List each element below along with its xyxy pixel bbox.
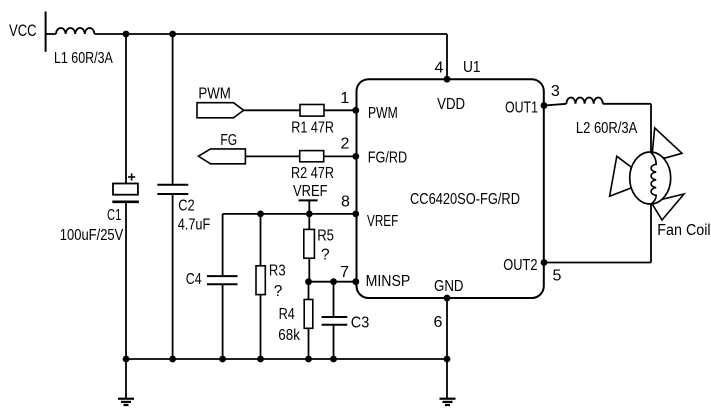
wire R4 bottom lead — [308, 328, 310, 359]
wire fan vertical bottom — [650, 204, 652, 263]
resistor R2 — [291, 151, 334, 182]
wire R4 top lead — [308, 282, 310, 300]
capacitor C1 — [60, 173, 139, 244]
node junction C2/rail — [169, 31, 176, 38]
svg-text:PWM: PWM — [198, 85, 230, 102]
wire L2 to fan — [603, 103, 651, 105]
wire R3 top lead — [260, 214, 262, 266]
svg-text:8: 8 — [341, 194, 350, 211]
node bus/C4 — [219, 356, 226, 363]
wire R5 top lead — [308, 214, 310, 230]
node pin 7 — [352, 278, 359, 285]
svg-text:4: 4 — [435, 59, 444, 76]
op-amp U1 IC body CC6420SO-FG/RD — [357, 59, 544, 298]
net VREF symbol — [293, 183, 328, 214]
wire R1 to pin 1 — [324, 109, 356, 111]
motor winding — [651, 153, 656, 205]
node bus/R4 — [305, 356, 312, 363]
wire R5 bottom lead — [308, 258, 310, 282]
wire rail down to VDD pin 4 — [446, 34, 448, 79]
wire VCC bar to L1 — [46, 33, 56, 35]
node bus/pin6 — [444, 356, 451, 363]
fan blade left — [610, 156, 633, 196]
wire C4 branch down — [222, 214, 224, 359]
svg-text:VREF: VREF — [293, 183, 328, 200]
wire C2 bottom lead — [172, 194, 174, 359]
fan coil (motor with blades) — [610, 128, 711, 239]
node bus/C3 — [330, 356, 337, 363]
svg-text:C4: C4 — [186, 271, 202, 288]
svg-text:GND: GND — [434, 278, 464, 295]
svg-text:MINSP: MINSP — [366, 273, 411, 290]
node junction C3/MINSP — [330, 278, 337, 285]
svg-text:FG: FG — [220, 132, 237, 149]
fan blade top-right — [652, 128, 682, 158]
svg-text:R3: R3 — [269, 262, 286, 279]
svg-text:CC6420SO-FG/RD: CC6420SO-FG/RD — [410, 191, 520, 208]
node pin 8 — [352, 211, 359, 218]
svg-text:R1 47R: R1 47R — [291, 119, 334, 136]
capacitor C2 — [157, 185, 210, 234]
wire OUT1 to L2 — [544, 104, 566, 106]
svg-text:VCC: VCC — [9, 21, 37, 40]
svg-text:L2 60R/3A: L2 60R/3A — [576, 120, 638, 137]
svg-text:U1: U1 — [463, 59, 481, 76]
node bus/C2 — [169, 356, 176, 363]
wire R3 bottom lead — [260, 295, 262, 359]
svg-text:FG/RD: FG/RD — [368, 149, 408, 166]
svg-text:R4: R4 — [279, 306, 295, 323]
resistor R4 — [278, 300, 313, 345]
wire VCC rail — [94, 33, 447, 35]
svg-text:?: ? — [274, 283, 283, 300]
FG output tag — [198, 132, 245, 164]
inductor L2 — [566, 97, 637, 137]
wire MINSP net to pin 7 — [309, 281, 356, 283]
svg-text:2: 2 — [341, 135, 350, 152]
resistor R1 — [291, 105, 334, 137]
node pin 3 (OUT1) — [541, 102, 548, 109]
fan blade bottom-right — [651, 194, 684, 220]
node junction R3/VREF — [257, 211, 264, 218]
svg-text:Fan Coil: Fan Coil — [657, 222, 710, 239]
node junction C1/rail — [123, 31, 130, 38]
ground bus wire — [126, 358, 447, 360]
wire R2 to pin 2 — [324, 155, 356, 157]
wire C3 top lead — [333, 282, 335, 317]
wire C1 bottom lead — [125, 202, 127, 359]
node bus/R3 — [257, 356, 264, 363]
svg-text:VREF: VREF — [367, 213, 398, 230]
resistor R5 — [304, 228, 334, 264]
svg-text:VDD: VDD — [437, 96, 465, 113]
svg-text:5: 5 — [553, 267, 562, 284]
capacitor C4 — [186, 271, 238, 288]
PWM input tag — [197, 85, 244, 117]
wire C2 top lead — [172, 34, 174, 185]
wire VREF net to pin 8 — [223, 213, 356, 215]
svg-text:PWM: PWM — [368, 105, 398, 122]
node pin 1 — [352, 107, 359, 114]
node pin 6 — [444, 295, 451, 302]
node pin 5 (OUT2) — [541, 259, 548, 266]
wire C3 bottom lead — [333, 325, 335, 359]
svg-text:7: 7 — [340, 264, 349, 281]
svg-text:68k: 68k — [278, 327, 300, 344]
node bus/C1 — [123, 356, 130, 363]
ground left — [118, 359, 134, 405]
node pin 2 — [352, 153, 359, 160]
svg-text:1: 1 — [340, 90, 349, 107]
ground right — [440, 359, 456, 405]
svg-text:?: ? — [321, 246, 330, 263]
svg-text:R5: R5 — [317, 228, 334, 245]
wire fan vertical top — [650, 104, 652, 153]
svg-text:3: 3 — [551, 83, 560, 100]
power terminal VCC — [9, 12, 46, 52]
wire GND pin 6 — [446, 298, 448, 359]
svg-text:C3: C3 — [351, 314, 370, 331]
svg-text:OUT1: OUT1 — [505, 100, 538, 117]
inductor L1 — [54, 28, 113, 67]
resistor R3 — [256, 262, 286, 300]
svg-text:R2 47R: R2 47R — [291, 165, 334, 182]
node pin 4 — [444, 76, 451, 83]
motor body — [630, 152, 671, 204]
svg-text:C2: C2 — [178, 198, 195, 215]
wire OUT2 to fan — [544, 262, 651, 264]
wire PWM tag to R1 — [244, 109, 300, 111]
svg-text:L1 60R/3A: L1 60R/3A — [54, 50, 113, 67]
svg-text:C1: C1 — [107, 207, 121, 224]
svg-text:6: 6 — [434, 314, 443, 331]
wire FG tag to R2 — [245, 155, 299, 157]
svg-text:4.7uF: 4.7uF — [178, 217, 211, 234]
wire C1 top lead — [125, 34, 127, 184]
svg-text:OUT2: OUT2 — [503, 257, 537, 274]
svg-text:100uF/25V: 100uF/25V — [60, 227, 124, 244]
node junction R5/VREF — [306, 211, 313, 218]
capacitor C3 — [322, 314, 370, 331]
node junction R5/R4 — [305, 278, 312, 285]
